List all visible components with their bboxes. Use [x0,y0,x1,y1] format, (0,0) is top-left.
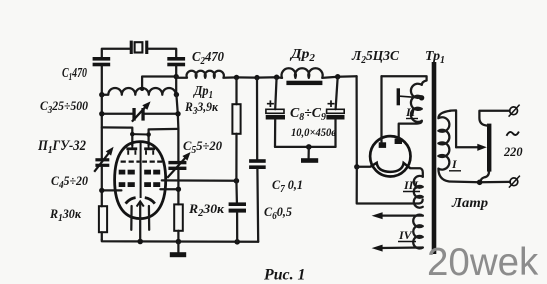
node right grid [176,187,181,192]
node C8 top [274,75,279,80]
capacitor C1 [93,57,111,66]
latr wiper arrow [456,144,487,151]
label winding I [449,157,461,171]
transformer Tr1 core [432,62,437,254]
wire left vertical tank to C4 [101,95,103,159]
wire anode lead right from winding II bottom [399,121,422,139]
wire right vertical tank to C5 [176,95,178,161]
wire C2 bottom down to tap junction [175,66,177,95]
node anode A [130,132,135,137]
node coil right [174,92,179,97]
node screen [234,178,240,184]
wire tube heater stubs [131,206,149,230]
capacitor C9 electrolytic [326,77,344,147]
wire arrow output bottom [372,245,423,252]
node coil tap [140,87,144,91]
node C3 left [99,111,104,116]
wire B+ corner down to filament tap [355,76,357,167]
capacitor C5 variable [167,152,190,178]
node C8 C9 junction [306,144,312,150]
wire coil center tap [142,77,176,89]
wire screen line to R3 C6 node [162,179,237,182]
transformer Tr1 winding IV [413,215,423,249]
wire anode B link [149,129,179,146]
wire winding I bottom to terminal [449,180,510,183]
node R3 top [234,75,239,80]
wire C8 C9 negatives join [275,146,336,148]
wire rail to winding II top [382,76,427,85]
tube U2 5C3S envelope [370,136,410,176]
inductor Dr1 choke [176,71,236,78]
node latr bottom [477,180,483,186]
svg-text:Латр: Латр [451,196,488,211]
tube U2 anode plates [379,139,402,148]
svg-text:20wek: 20wek [427,241,539,284]
wire right grid line [160,188,178,190]
resistor R2 [174,204,183,230]
node rail cathode [137,239,143,245]
capacitor C8 electrolytic [266,77,285,147]
node left grid [99,188,104,193]
node filament tap [354,164,359,169]
wire anode lead left from rail [380,76,382,142]
node C3 right [175,111,180,116]
wire C3 rail [102,113,178,115]
transformer Tr1 winding III [414,176,423,208]
node rail R2 [176,239,182,245]
terminal bottom 220 [509,176,520,188]
crystal Z1 [130,41,149,54]
label winding III [403,178,420,192]
wire arrow output top [372,212,423,219]
anode tap bar [397,88,422,105]
inductor L1 tank coil [102,88,177,95]
wire filament tap down to winding III bottom [357,167,423,204]
terminal top 220 [509,105,520,117]
wire R2 bottom to rail [177,231,179,242]
node C7 top [254,75,259,80]
wire latr bottom to junction [481,172,489,183]
wire filament left lead [357,166,371,168]
node anode B [146,132,151,137]
node coil left [99,92,104,97]
wire C4 bottom to grid node [101,167,103,206]
wire C1 bottom to tank left [101,66,103,95]
resistor R3 [232,77,240,180]
svg-text:IV: IV [398,228,413,242]
label winding II [405,105,418,119]
ground chassis symbol left [170,242,186,258]
wire latr top to terminal [479,111,509,126]
capacitor C3 variable [132,101,151,121]
svg-text:C8÷C9: C8÷C9 [290,106,326,123]
wire top rail Dr1 to Dr2 [237,76,283,79]
label winding IV [398,228,416,242]
latr bar [487,124,491,172]
wire bottom ground rail [102,240,258,242]
resistor R1 [99,206,107,232]
tube U1 internals [119,142,163,207]
wire filament right to winding III [410,168,423,177]
transformer Tr1 winding I [438,111,450,182]
wire winding I top to wiper [450,110,456,147]
node C9 top [335,74,340,79]
svg-text:C2470: C2470 [192,50,224,67]
svg-text:II: II [405,105,417,119]
wire R1 bottom to rail [101,232,103,240]
node rail C6 [234,239,240,245]
svg-text:Рис. 1: Рис. 1 [263,267,305,284]
svg-text:III: III [403,178,419,192]
wire anode A link [102,127,133,145]
inductor Dr2 choke iron core [282,68,338,85]
capacitor C2 [167,57,185,66]
tube U2 filament arc [371,163,411,172]
svg-text:П1ГУ-32: П1ГУ-32 [37,138,86,156]
wire crystal left to C1 top [102,49,130,58]
ground chassis symbol psu [301,147,318,163]
svg-text:Л25Ц3С: Л25Ц3С [351,49,400,66]
node tap junction [174,74,179,79]
wire top rail Dr2 to corner [338,75,357,78]
wire tube cathode lead to ground rail [139,204,141,242]
svg-text:C1470: C1470 [62,66,87,83]
svg-text:220: 220 [503,144,523,159]
capacitor C7 [249,78,266,242]
wire left grid line [102,189,122,191]
svg-text:10,0×450в: 10,0×450в [291,125,337,139]
transformer Tr1 winding II [411,84,422,122]
wire anode bridge [132,133,148,135]
wire crystal right to C2 top [148,49,176,58]
label ~ [507,132,519,136]
tube U1 GU-32 envelope [115,142,166,219]
capacitor C4 variable [94,147,113,172]
node winding II mid [419,95,424,100]
wire C5 bottom to grid node [177,170,179,204]
capacitor C6 [229,181,246,242]
